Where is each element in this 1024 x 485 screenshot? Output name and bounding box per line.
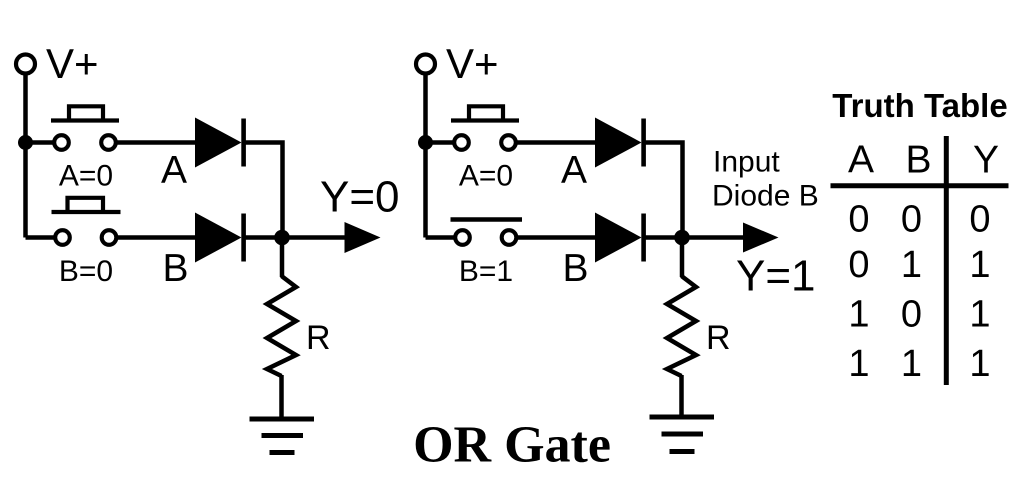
svg-text:0: 0 <box>901 294 922 336</box>
svg-text:1: 1 <box>901 343 922 385</box>
truth table header rule <box>831 183 1009 188</box>
diode A (left): cathode bar <box>241 119 246 167</box>
resistor R (middle) <box>667 276 696 376</box>
wire: junction to resistor (middle) <box>680 238 685 278</box>
svg-text:B=1: B=1 <box>459 255 513 288</box>
terminal V+ (middle) <box>416 55 435 74</box>
wire: diode B to output node (middle) <box>645 235 682 240</box>
ground (left) <box>250 419 315 453</box>
wire: diode A to output bus (left) <box>245 143 283 233</box>
svg-text:1: 1 <box>969 294 990 336</box>
truth table row 2: 0 1 1 <box>848 244 990 286</box>
arrowhead: output Y (left) <box>345 222 381 253</box>
diode B (left): anode triangle <box>195 213 242 263</box>
svg-text:Diode B: Diode B <box>712 180 819 213</box>
diode A (left): anode triangle <box>195 118 242 168</box>
svg-text:B: B <box>562 247 588 290</box>
svg-text:OR Gate: OR Gate <box>413 417 611 474</box>
switch A=0 pushbutton (left): contacts <box>54 135 116 150</box>
wire: junction to switch A (left) <box>26 140 55 145</box>
node: output junction (middle) <box>674 230 690 246</box>
wire: diode B to output node (left) <box>245 235 282 240</box>
svg-text:0: 0 <box>969 199 990 241</box>
node: output junction (left) <box>274 230 290 246</box>
svg-text:1: 1 <box>848 294 869 336</box>
svg-text:B: B <box>905 139 931 182</box>
node: trunk junction row A (left) <box>18 135 33 150</box>
wire: trunk to switch B (left) <box>26 235 56 240</box>
wire: switch A to diode A (middle) <box>516 140 598 145</box>
svg-text:A: A <box>848 139 874 182</box>
truth table column divider <box>944 136 949 385</box>
svg-text:Input: Input <box>713 146 780 179</box>
node: trunk junction row A (middle) <box>418 135 433 150</box>
diode A (middle): cathode bar <box>641 119 646 167</box>
wire: junction to resistor (left) <box>280 238 285 278</box>
svg-text:1: 1 <box>969 343 990 385</box>
svg-text:0: 0 <box>848 199 869 241</box>
switch B=1 pushbutton pressed (middle): actuator bar <box>451 217 523 222</box>
wire: switch A to diode A (left) <box>116 140 198 145</box>
svg-text:V+: V+ <box>446 40 499 87</box>
svg-text:B: B <box>162 247 188 290</box>
svg-text:Y: Y <box>973 139 999 182</box>
wire: resistor to ground (middle) <box>679 375 684 417</box>
wire: V+ trunk down (middle) <box>423 75 428 238</box>
ground (middle) <box>650 417 715 452</box>
resistor R (left) <box>267 276 296 376</box>
truth table row 1: 0 0 0 <box>848 199 990 241</box>
terminal V+ (left) <box>16 55 35 74</box>
truth table row 3: 1 0 1 <box>848 294 990 336</box>
svg-text:1: 1 <box>848 343 869 385</box>
svg-text:Y=0: Y=0 <box>320 173 400 222</box>
diode B (middle): anode triangle <box>595 213 642 263</box>
switch A=0 pushbutton (left): actuator <box>51 106 119 120</box>
svg-text:A=0: A=0 <box>59 160 113 193</box>
svg-text:Y=1: Y=1 <box>736 252 816 301</box>
wire: switch B to diode B (left) <box>116 235 197 240</box>
switch A=0 pushbutton (middle): actuator <box>451 106 519 120</box>
switch A=0 pushbutton (middle): contacts <box>454 135 516 150</box>
switch B=1 pushbutton pressed (middle): contacts <box>455 230 516 245</box>
diode B (middle): cathode bar <box>641 214 646 262</box>
diode A (middle): anode triangle <box>595 118 642 168</box>
truth table row 4: 1 1 1 <box>848 343 990 385</box>
wire: resistor to ground (left) <box>279 375 284 419</box>
wire: output (middle) <box>682 235 746 240</box>
arrowhead: output Y (middle) <box>743 223 779 253</box>
wire: switch B to diode B (middle) <box>516 235 597 240</box>
wire: trunk to switch B (middle) <box>426 235 456 240</box>
svg-text:R: R <box>306 319 331 357</box>
svg-text:A: A <box>161 149 187 192</box>
svg-text:R: R <box>706 319 731 357</box>
svg-text:V+: V+ <box>46 40 99 87</box>
svg-text:A=0: A=0 <box>459 160 513 193</box>
svg-text:0: 0 <box>848 244 869 286</box>
switch B=0 pushbutton (left): contacts <box>55 230 116 245</box>
wire: output (left) <box>282 235 348 240</box>
svg-text:B=0: B=0 <box>59 255 113 288</box>
svg-text:Truth Table: Truth Table <box>832 87 1007 124</box>
switch B=0 pushbutton (left): actuator <box>52 198 121 212</box>
wire: diode A to output bus (middle) <box>645 143 683 233</box>
label Input Diode B <box>712 146 819 213</box>
svg-text:1: 1 <box>901 244 922 286</box>
svg-text:1: 1 <box>969 244 990 286</box>
svg-text:A: A <box>561 149 587 192</box>
wire: junction to switch A (middle) <box>426 140 455 145</box>
diode B (left): cathode bar <box>241 214 246 262</box>
wire: V+ trunk down (left) <box>23 75 28 238</box>
svg-text:0: 0 <box>901 199 922 241</box>
